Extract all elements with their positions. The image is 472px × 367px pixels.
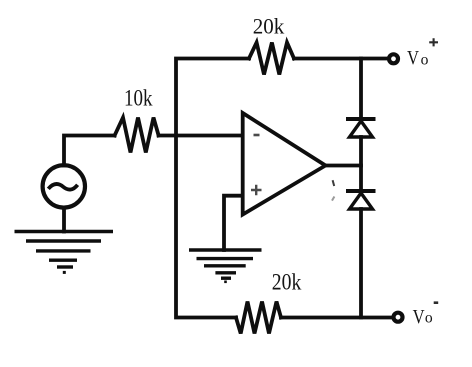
diode D2 triangle <box>350 193 373 209</box>
wire: left vertical rail with top and bottom bends <box>176 59 249 318</box>
wire: R1 to op-amp inverting input <box>159 134 243 138</box>
label: Vo+ <box>407 38 438 69</box>
wire: bottom wire from R3 to Vo- terminal <box>281 316 392 320</box>
resistor R2 20k (top feedback) <box>249 43 294 75</box>
diode D2 cathode bar <box>348 189 374 193</box>
voltage source VS (sine source) <box>43 165 85 207</box>
wire: right rail bottom segment to bottom wire <box>359 209 363 318</box>
op-amp U1 <box>243 113 326 215</box>
diode D1 triangle <box>350 121 373 137</box>
svg-text:o: o <box>425 310 433 327</box>
wire: op-amp output to right rail <box>326 164 362 168</box>
stray mark near op-amp output <box>332 180 334 200</box>
wire: right rail top segment to diode D1 <box>359 59 363 118</box>
wire: top wire from R2 to Vo+ terminal <box>294 57 388 61</box>
wire: op-amp non-inverting input stub down to ground <box>224 196 243 250</box>
svg-text:10k: 10k <box>124 86 153 112</box>
op-amp U1 minus sign <box>254 134 260 137</box>
label: Vo- <box>413 303 439 328</box>
node: output terminal Vo+ <box>389 54 398 63</box>
ground (below source) <box>15 232 114 273</box>
svg-text:V: V <box>407 47 419 69</box>
resistor R1 10k (input) <box>115 118 159 153</box>
svg-text:V: V <box>413 306 425 328</box>
ground (below op-amp + input) <box>189 250 262 282</box>
svg-text:o: o <box>421 52 429 69</box>
svg-text:20k: 20k <box>272 269 302 294</box>
wire: source to 10k input wire bend <box>64 136 115 166</box>
op-amp U1 plus sign <box>251 185 262 196</box>
svg-text:20k: 20k <box>253 14 285 39</box>
node: output terminal Vo- <box>394 313 403 322</box>
wire: source bottom stem to ground <box>62 208 66 232</box>
wire: D1 anode to output node <box>359 137 363 191</box>
diode D1 cathode bar <box>348 117 374 121</box>
resistor R3 20k (bottom) <box>236 302 281 334</box>
